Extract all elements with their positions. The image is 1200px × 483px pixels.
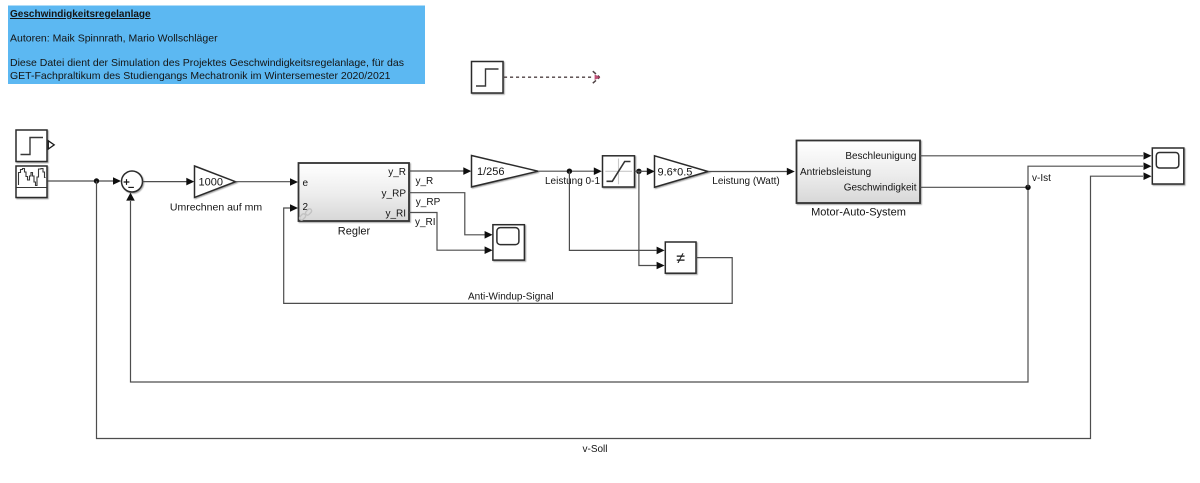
wire neq output anti-windup to Regler input 2: [284, 208, 733, 303]
svg-text:1000: 1000: [199, 177, 223, 189]
wire signal builder to sum: [48, 180, 114, 182]
svg-text:v-Soll: v-Soll: [582, 444, 607, 455]
svg-text:Antriebsleistung: Antriebsleistung: [800, 167, 871, 178]
sum plus sign: [124, 179, 130, 185]
annotation box Geschwindigkeitsregelanlage: [8, 6, 425, 85]
arrowhead into 1/256: [463, 167, 471, 175]
svg-text:Regler: Regler: [338, 225, 371, 237]
scope (right): [1152, 148, 1184, 184]
wire gain1000 to Regler: [236, 181, 291, 183]
arrowhead into gain 9.6*0.5: [647, 168, 655, 176]
arrowhead into scope1 input 2: [485, 246, 493, 254]
step block (top, unconnected): [472, 62, 504, 94]
node v-Ist junction: [1025, 185, 1030, 190]
svg-text:9.6*0.5: 9.6*0.5: [658, 166, 693, 178]
wire Geschwindigkeit to junction: [920, 186, 1028, 188]
arrowhead into saturation: [594, 167, 602, 175]
wire v-Ist up to scope input 2: [1028, 166, 1143, 187]
arrowhead into scope1 input 1: [485, 231, 493, 239]
svg-text:Diese Datei dient der Simulati: Diese Datei dient der Simulation des Pro…: [10, 57, 404, 69]
sum block: [122, 171, 143, 192]
svg-text:Umrechnen auf mm: Umrechnen auf mm: [170, 202, 262, 214]
wire Beschleunigung to scope: [920, 155, 1143, 157]
svg-text:Motor-Auto-System: Motor-Auto-System: [811, 207, 906, 219]
signal builder block v-Soll Signal: [16, 166, 47, 198]
arrowhead into Motor-Auto-System: [787, 168, 795, 176]
unconnected output port of Step1: [48, 141, 54, 149]
gain 9.6*0.5: [655, 156, 709, 187]
wire v-Soll feedback to scope: [97, 176, 1144, 438]
svg-text:2: 2: [303, 202, 309, 213]
svg-text:y_RP: y_RP: [416, 197, 441, 208]
svg-text:y_RI: y_RI: [415, 217, 436, 228]
svg-text:y_RI: y_RI: [385, 208, 406, 219]
arrowhead up into sum: [126, 193, 135, 201]
wire v-Ist feedback into sum bottom: [131, 187, 1029, 382]
gain Umrechnen auf mm: [195, 166, 236, 197]
svg-text:Leistung 0-1: Leistung 0-1: [545, 176, 600, 187]
svg-text:Geschwindigkeitsregelanlage: Geschwindigkeitsregelanlage: [10, 9, 151, 20]
arrowhead into scope input 3: [1144, 172, 1152, 180]
wire node down to neq input 2: [639, 171, 657, 265]
node Leistung 0-1 junction: [567, 169, 572, 174]
svg-text:≠: ≠: [676, 251, 685, 268]
wire y_RI to scope1: [409, 213, 485, 251]
svg-text:GET-Fachpraltikum des Studieng: GET-Fachpraltikum des Studiengangs Mecha…: [10, 70, 391, 82]
gain 1/256: [472, 156, 539, 187]
wire gain to Motor-Auto-System: [708, 171, 787, 173]
svg-text:Geschwindigkeit: Geschwindigkeit: [844, 183, 917, 194]
red dashed unconnected wire: [504, 76, 592, 78]
svg-text:e: e: [303, 178, 309, 189]
wire sum to gain1000: [143, 181, 187, 183]
node after saturation: [636, 169, 641, 174]
svg-text:Leistung (Watt): Leistung (Watt): [712, 176, 779, 187]
wire y_R to gain 1/256: [409, 170, 464, 172]
wire y_RP to scope1: [409, 193, 485, 235]
wire 1/256 to saturation: [538, 170, 594, 172]
arrowhead into scope input 2: [1144, 162, 1152, 170]
svg-text:v-Ist: v-Ist: [1032, 173, 1051, 184]
arrowhead into Regler input 2: [290, 204, 298, 212]
svg-text:Autoren: Maik Spinnrath, Mario: Autoren: Maik Spinnrath, Mario Wollschlä…: [10, 33, 218, 45]
subsystem Regler: [299, 163, 410, 221]
sum minus sign: [128, 186, 134, 188]
saturation block: [603, 156, 635, 187]
wire saturation to gain 9.6*0.5: [635, 170, 648, 172]
svg-text:y_R: y_R: [388, 167, 406, 178]
relational operator neq: [665, 242, 696, 273]
svg-text:1/256: 1/256: [477, 166, 505, 178]
svg-text:y_RP: y_RP: [382, 188, 407, 199]
svg-text:y_R: y_R: [416, 176, 434, 187]
broken link icon: [299, 208, 313, 221]
saturation curve: [607, 162, 631, 182]
arrowhead into gain1000: [186, 178, 194, 186]
svg-text:Beschleunigung: Beschleunigung: [845, 151, 916, 162]
step block Step1: [16, 130, 47, 162]
subsystem Motor-Auto-System: [797, 141, 921, 204]
saturation axes: [605, 159, 632, 185]
arrowhead into scope input 1: [1144, 152, 1152, 160]
unconnected wire open arrowhead: [593, 71, 600, 83]
node v-Soll junction: [94, 178, 99, 183]
arrowhead into neq in1: [657, 247, 665, 255]
svg-text:Anti-Windup-Signal: Anti-Windup-Signal: [468, 291, 554, 302]
arrowhead into Regler e: [290, 178, 298, 186]
arrowhead into sum: [113, 177, 121, 185]
arrowhead into neq in2: [657, 262, 665, 270]
scope1 (middle): [493, 225, 525, 260]
wire junction down to neq input 1: [569, 171, 656, 250]
